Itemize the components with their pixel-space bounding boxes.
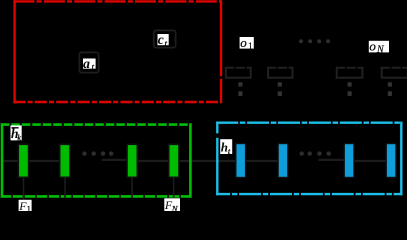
wire bar C to bar D <box>137 160 170 162</box>
decoder bar 2 <box>278 144 288 178</box>
decoder bar 1 <box>236 144 246 178</box>
observation box 4 (dashed) <box>382 68 407 78</box>
label o_N <box>369 39 389 56</box>
encoder cdots <box>82 151 113 155</box>
svg-text:k: k <box>17 134 21 143</box>
observation box 3 (dashed) <box>337 68 363 78</box>
decoder bar 3 <box>344 144 354 178</box>
observation box 1 (dashed) <box>226 68 251 78</box>
label h-bar_k <box>11 125 22 142</box>
node c_t <box>154 30 176 47</box>
decoder cdots <box>300 151 331 155</box>
wire bar A down to F_1 <box>23 177 25 200</box>
label F_1 <box>18 199 31 214</box>
wire cdots to decoder bar 3 <box>319 159 346 161</box>
vdots under box 1 <box>238 82 242 96</box>
encoder bar B <box>60 144 70 177</box>
svg-text:o: o <box>240 35 247 50</box>
encoder bar A <box>18 144 28 177</box>
encoder box (green dashed) <box>1 123 192 197</box>
wire bar D down to F_N <box>173 177 175 199</box>
svg-text:1: 1 <box>27 204 31 212</box>
ellipsis dots between o_1 and o_N <box>299 39 330 43</box>
wire bar B down <box>64 177 66 199</box>
wire decoder bar 3 to bar 4 <box>354 160 388 162</box>
label F_N <box>164 198 180 214</box>
wire cdots to bar C <box>102 159 128 161</box>
wire bar C down <box>131 177 133 199</box>
wire bar A to bar B <box>28 160 61 162</box>
label h_t <box>220 139 232 156</box>
node a_t <box>79 52 98 72</box>
vdots under box 4 <box>388 82 392 96</box>
wire box edge to encoder bar A <box>1 160 19 162</box>
wire decoder bar 1 to bar 2 <box>245 160 279 162</box>
encoder bar D <box>169 144 179 177</box>
label o_1 <box>240 35 254 52</box>
attention module box (red dashed) <box>13 0 221 103</box>
vdots under box 2 <box>278 82 282 96</box>
decoder box (cyan dashed) <box>216 122 402 196</box>
observation box 2 (dashed) <box>268 68 292 78</box>
decoder bar 4 <box>386 144 396 178</box>
svg-text:1: 1 <box>248 42 253 52</box>
vdots under box 3 <box>348 82 352 96</box>
svg-text:a: a <box>83 57 90 72</box>
svg-text:o: o <box>369 39 376 54</box>
encoder bar C <box>127 144 137 177</box>
svg-text:N: N <box>376 45 385 56</box>
svg-text:c: c <box>158 32 164 47</box>
wire bar D to decoder bar 1 <box>178 160 237 162</box>
